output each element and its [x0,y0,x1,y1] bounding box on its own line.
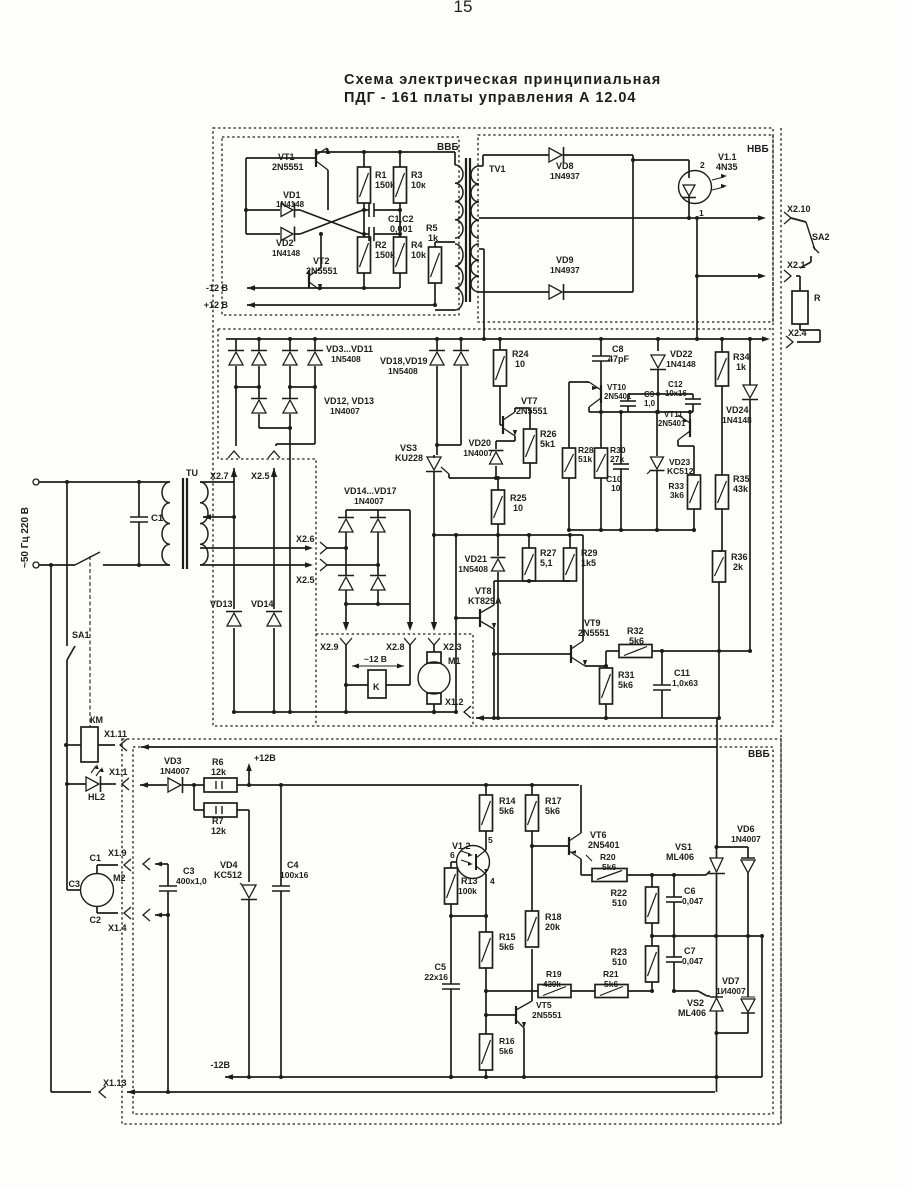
svg-text:R19: R19 [546,969,562,979]
transformer TU label [186,468,198,478]
label C11 [672,668,698,688]
wire VD left vertical [245,158,247,234]
frame box B (VVB multivibrator) [222,137,459,315]
svg-text:SA1: SA1 [72,630,90,640]
relay K [344,670,410,714]
resistor R1 [358,150,371,203]
svg-text:5k6: 5k6 [604,979,618,989]
diode cluster VD3-VD11 row1 [228,337,323,387]
svg-text:R2: R2 [375,240,387,250]
led HL2 [65,764,129,792]
svg-text:430k: 430k [543,980,561,989]
wire bridge right [409,510,411,604]
connector X2.9 [320,638,352,712]
label HL2 [88,792,105,802]
svg-text:C3: C3 [68,879,80,889]
frame outer right line [780,128,782,1124]
resistor R15 [480,932,493,1034]
wire center vertical x456 [454,533,458,714]
svg-text:VT2: VT2 [313,256,330,266]
label R26 [540,429,557,449]
resistor R20 [581,869,696,882]
svg-text:R7: R7 [212,816,224,826]
label SA1 [72,630,90,640]
thyristor VS3 [426,455,449,474]
svg-text:VD1: VD1 [283,190,301,200]
label VS1 [666,842,694,862]
label R16 [499,1036,515,1056]
frame motor cutout [315,634,317,726]
label V1.2 [452,841,471,851]
thyristor VS1 [696,858,725,936]
wire vertical x697 [695,218,699,341]
wire common emitter [569,529,694,531]
svg-text:VS2: VS2 [687,998,704,1008]
svg-text:KU228: KU228 [395,453,423,463]
svg-text:4N35: 4N35 [716,162,738,172]
svg-text:X1.1: X1.1 [109,767,128,777]
svg-text:47pF: 47pF [608,354,630,364]
label R27 [540,548,557,568]
svg-text:1N4937: 1N4937 [550,265,580,275]
label VD23 [667,457,694,476]
motor M1 [418,652,461,714]
capacitor C10 [613,410,629,532]
wire M2 bottom [89,906,131,925]
wire rail top multivib [317,151,455,153]
svg-text:VD8: VD8 [556,161,574,171]
svg-text:C6: C6 [684,886,696,896]
wire cluster bottoms [236,387,315,462]
diode VD9 [479,284,633,300]
resistor R30 [595,410,608,532]
svg-text:4: 4 [490,876,495,886]
wire X2.10 [479,203,766,221]
label R17 [545,796,562,816]
svg-text:5k6: 5k6 [499,806,514,816]
resistor R29 [564,533,577,581]
capacitor C3 [159,864,177,1094]
svg-text:0,047: 0,047 [682,956,704,966]
wire TV1 center tap [479,249,486,341]
svg-text:1N4007: 1N4007 [354,496,384,506]
frame box E (bottom outer) [122,739,781,1124]
svg-text:VS3: VS3 [400,443,417,453]
label R35 [733,474,750,494]
label VT6 [588,830,620,850]
svg-text:5: 5 [488,835,493,845]
connector X2.5 left [251,451,280,481]
svg-text:VD7: VD7 [722,976,740,986]
label R13 [458,876,478,896]
connector X1.9 inside [108,848,168,870]
connector X2.8 [386,638,416,685]
svg-text:VD3: VD3 [164,756,182,766]
svg-text:VD14: VD14 [251,599,274,609]
wire R1R3 bottoms [362,203,402,237]
svg-text:VD12, VD13: VD12, VD13 [324,396,374,406]
wire TU sec top tap [200,468,234,482]
wire left tall vertical [50,565,52,1092]
label R7 [211,816,227,836]
wire emitter row [432,533,583,537]
svg-text:1И4007: 1И4007 [716,986,746,996]
terminal 2 [33,562,39,568]
label R2 [375,240,396,260]
svg-text:SA2: SA2 [812,232,830,242]
terminal 1 [33,479,39,485]
switch SA1 pole2 [66,482,75,745]
svg-text:VD24: VD24 [726,405,749,415]
wire VT1 base [246,157,316,159]
connector X2.1 [784,260,806,282]
capacitor C6 [666,875,682,936]
label VD12 VD13 [324,396,374,416]
svg-text:R3: R3 [411,170,423,180]
svg-text:ПДГ - 161 платы управления А: ПДГ - 161 платы управления А 12.04 [344,90,636,106]
svg-text:R15: R15 [499,932,516,942]
resistor R34 [716,337,729,475]
resistor R7 [194,785,249,817]
diode cluster row2 [251,387,298,413]
svg-text:2N5551: 2N5551 [578,628,610,638]
resistor R21 [595,985,676,998]
svg-text:0,001: 0,001 [390,224,413,234]
connector X1.2 [445,697,471,718]
svg-text:10к: 10к [411,180,426,190]
wire V1.2 collector [485,843,487,850]
wire W1 [232,710,457,714]
svg-text:VD2: VD2 [276,238,294,248]
svg-text:1N4148: 1N4148 [722,415,752,425]
svg-text:TV1: TV1 [489,164,506,174]
svg-text:C5: C5 [434,962,446,972]
svg-text:X2.3: X2.3 [443,642,462,652]
label pin2 [700,160,705,170]
svg-text:R23: R23 [610,947,627,957]
svg-text:C3: C3 [183,866,195,876]
zener VD4 [240,810,257,1077]
svg-text:22x16: 22x16 [424,972,448,982]
svg-text:2N5551: 2N5551 [306,266,338,276]
svg-text:X2.8: X2.8 [386,642,405,652]
label VT9 [578,618,610,638]
label VT10 [604,383,632,401]
svg-text:100k: 100k [458,886,477,896]
label VT5 [532,1000,562,1020]
svg-text:C4: C4 [287,860,299,870]
svg-text:ML406: ML406 [678,1008,706,1018]
svg-text:VS1: VS1 [675,842,692,852]
svg-text:VT9: VT9 [584,618,601,628]
capacitor C12 [658,394,701,414]
label C7 [682,946,704,966]
label R1 [375,170,396,190]
svg-text:VD18,VD19: VD18,VD19 [380,356,428,366]
resistor R18 [526,846,539,947]
wire R21 to VS2 gate [674,991,710,996]
svg-text:1N4148: 1N4148 [666,359,696,369]
transistor VT9 [492,535,606,666]
svg-text:M2: M2 [113,873,126,883]
svg-text:R26: R26 [540,429,557,439]
svg-text:43k: 43k [733,484,749,494]
svg-text:VD13: VD13 [210,599,233,609]
svg-text:2N5401: 2N5401 [658,419,686,428]
title line 2 [344,90,636,106]
resistor R14 [480,785,493,843]
wire R to X2.4 [797,324,820,342]
svg-text:R17: R17 [545,796,562,806]
label R18 [545,912,562,932]
label R4 [411,240,427,260]
label C1 [151,513,164,524]
label VD3 [160,756,190,776]
svg-text:X2.9: X2.9 [320,642,339,652]
svg-text:M1: M1 [448,656,461,666]
svg-text:20k: 20k [545,922,561,932]
diode VD21 [491,535,506,720]
svg-text:2N5551: 2N5551 [272,162,304,172]
resistor R35 [716,475,729,551]
wire TU sec bottom taps [200,548,206,565]
svg-text:10k: 10k [411,250,427,260]
label R31 [618,670,635,690]
resistor R17 [526,785,539,846]
wire R5 tap [435,241,455,243]
label R19 [543,969,562,989]
wire X1.13 [51,1078,715,1098]
frame box F (bottom inner) [133,747,773,1114]
capacitor C7 [666,936,682,991]
svg-text:-12 В: -12 В [206,283,229,293]
wire mains bottom [39,563,168,567]
svg-text:-12В: -12В [210,1060,230,1070]
svg-text:+12 В: +12 В [204,300,229,310]
label VS2 [678,998,706,1018]
svg-text:R24: R24 [512,349,529,359]
label pin5 [488,835,493,845]
svg-text:~50 Гц 220 В: ~50 Гц 220 В [20,507,31,568]
diode VD13 [210,599,242,626]
wire V1.2 emitter [485,874,487,932]
resistor R26 [524,415,537,463]
label pin4 [490,876,495,886]
label R23 [610,947,627,967]
label R36 [731,552,748,572]
capacitor C11 [652,649,671,718]
label VD21 [458,554,488,574]
label R21 [603,969,619,989]
wire VS1 top [715,845,749,858]
page number [454,0,473,16]
svg-text:R35: R35 [733,474,750,484]
switch SA2 [791,218,830,262]
wire M2 left [67,745,81,890]
transformer TV1 core [466,158,470,302]
resistor R16 [480,1034,493,1077]
svg-text:R31: R31 [618,670,635,680]
label VVB bottom [748,749,770,760]
resistor R3 [394,150,407,203]
label X1.1 ext [109,767,128,777]
svg-text:R1: R1 [375,170,387,180]
capacitor C2 coupling [363,227,400,241]
transistor VT8 [454,581,496,720]
svg-text:C2: C2 [89,915,101,925]
resistor R31 [600,664,613,720]
label VT8 [468,586,502,606]
wire +12V rail [204,300,435,310]
label R32 [627,626,644,646]
svg-text:KT829A: KT829A [468,596,502,606]
wire -12V rail [206,273,400,293]
wire main rail [226,336,770,342]
svg-text:R21: R21 [603,969,619,979]
svg-text:10x16: 10x16 [665,389,687,398]
svg-text:C8: C8 [612,344,624,354]
opto light arrows [712,174,727,190]
svg-text:X1.4: X1.4 [108,923,127,933]
svg-text:1k: 1k [736,362,747,372]
svg-text:10: 10 [515,359,525,369]
diode VD14 [251,599,282,626]
svg-text:51k: 51k [578,454,592,464]
wire bridge arrows down [343,472,437,631]
svg-text:1N4148: 1N4148 [272,249,301,258]
label TV1 [489,164,506,174]
label R20 [586,852,616,872]
resistor R27 [523,535,536,581]
transformer TU core [183,478,187,569]
diode VD22 [650,337,666,414]
svg-text:VD4: VD4 [220,860,238,870]
wire TU sec mid tap [203,514,236,520]
svg-text:5k1: 5k1 [540,439,555,449]
resistor R28 [563,446,576,532]
wire M2 top [89,853,131,874]
capacitor C8 [592,337,610,385]
frame box D (middle section) [218,329,773,726]
label ~12V arrow [352,654,404,668]
svg-text:X1.9: X1.9 [108,848,127,858]
svg-text:HL2: HL2 [88,792,105,802]
wire X2.5 vertical [271,468,277,714]
resistor R19 [486,985,595,998]
svg-text:6: 6 [450,850,455,860]
svg-text:R4: R4 [411,240,423,250]
label R15 [499,932,516,952]
label C10 [606,474,622,493]
connector X1.11 [104,729,127,751]
label VT1 [272,152,304,172]
connector X1.4 inside [108,909,170,933]
wire X1.1 rail [140,782,167,788]
wire R32 to VD24 [662,649,752,653]
svg-text:1N5408: 1N5408 [388,366,418,376]
diodes VD18 VD19 [429,337,469,455]
label pin1 [699,208,704,218]
svg-text:5k6: 5k6 [499,942,514,952]
svg-text:1N4148: 1N4148 [276,200,305,209]
label ~50Hz 220V [20,507,31,568]
resistor R4 [394,237,407,273]
svg-text:12k: 12k [211,767,227,777]
resistor R22 [646,875,659,936]
transformer TV1 secondary [471,166,479,292]
label VT7 [516,396,548,416]
wire +12 rail right [249,783,579,787]
svg-text:VT6: VT6 [590,830,607,840]
label C12 [665,380,687,398]
resistor R23 [646,936,659,991]
label VD8 [550,161,580,181]
label VVB top [437,142,459,153]
svg-text:КМ: КМ [90,715,103,725]
svg-text:5k6: 5k6 [629,636,644,646]
label VT2 [306,256,338,276]
svg-text:X1.13: X1.13 [103,1078,127,1088]
wire X1.11 inside [141,722,717,750]
label R25 [510,493,527,513]
wire cluster join1 [234,385,261,389]
svg-text:R14: R14 [499,796,516,806]
svg-text:TU: TU [186,468,198,478]
svg-text:R13: R13 [461,876,478,886]
wire VD8 VD9 join [632,155,634,292]
svg-text:C12: C12 [668,380,683,389]
svg-text:0,047: 0,047 [682,896,704,906]
label C9 [644,390,656,408]
label X1.9 ext [0,0,1,1]
svg-text:X1.11: X1.11 [104,729,127,739]
resistor R32 [606,645,652,667]
transistor VT2 [309,232,323,290]
linkage SA1-KM [89,556,91,727]
svg-text:X2.4: X2.4 [788,328,807,338]
transformer TU secondary [200,482,208,565]
diode VD1 [244,190,305,217]
svg-text:VD20: VD20 [468,438,491,448]
diode bridge VD14-VD17 [338,510,410,606]
svg-text:VT11: VT11 [664,410,683,419]
svg-text:KC512: KC512 [214,870,242,880]
wire SA2 to X2.1 [796,262,811,291]
svg-text:1N4007: 1N4007 [160,766,190,776]
svg-text:ВВБ: ВВБ [748,749,770,760]
label R22 [610,888,627,908]
transistor VT10 [569,382,601,446]
label R14 [499,796,516,816]
label VS3 [395,443,423,463]
label R28 [578,445,594,464]
label R29 [581,548,598,568]
svg-text:Схема электрическая принципи: Схема электрическая принципиальная [344,72,661,88]
label VD4 [214,860,242,880]
label VD22 [666,349,696,369]
svg-text:VD3...VD11: VD3...VD11 [326,344,373,354]
wire X2.5 low [206,559,378,571]
label R33 [668,481,684,500]
svg-text:C7: C7 [684,946,696,956]
label X2.6 [296,534,315,544]
resistor R24 [494,337,507,386]
label X2.5 low [296,575,315,585]
svg-text:5,1: 5,1 [540,558,553,568]
svg-text:1N4007: 1N4007 [330,406,360,416]
svg-text:X2.7: X2.7 [210,471,229,481]
wire opto pin2 [631,158,689,171]
